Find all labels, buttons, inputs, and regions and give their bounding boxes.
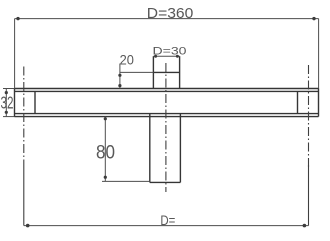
central axis centerline — [165, 63, 167, 192]
arrow dot 80 top — [104, 117, 107, 120]
flange plate bottom surface line — [15, 116, 319, 118]
flange plate top surface line — [15, 88, 319, 90]
right bolt hole centerline — [308, 65, 310, 168]
flange plate upper inner line — [15, 90, 319, 92]
dimension 32 lower extension — [3, 116, 15, 118]
boss top line — [153, 71, 179, 73]
dimension D=360 left witness — [14, 19, 16, 89]
boss right side — [179, 56, 181, 88]
arrow dot D= right — [303, 224, 307, 228]
dimension 80 bottom extension to hub — [102, 180, 150, 182]
svg-text:20: 20 — [120, 51, 134, 67]
dimension 20 extension from boss top — [120, 71, 153, 73]
arrow dot D=360 right — [312, 17, 315, 20]
dimension 32 upper extension — [3, 88, 15, 90]
svg-text:D=360: D=360 — [147, 6, 194, 22]
arrow dot D=30 left — [154, 55, 157, 58]
svg-text:80: 80 — [96, 141, 115, 163]
dimension 80 line — [104, 117, 106, 182]
right bolt-circle witness line (solid extension) — [308, 165, 310, 226]
flange plate lower inner line — [15, 113, 319, 115]
arrow dot 32 bottom — [5, 111, 8, 114]
flange left edge — [14, 89, 16, 117]
dimension 32 line — [5, 89, 7, 117]
dimension D= (bolt circle) line — [24, 225, 309, 227]
svg-text:D=: D= — [160, 212, 175, 228]
dimension D=360 right witness — [318, 19, 320, 89]
dimension D=360 line — [15, 18, 319, 20]
arrow dot D= left — [26, 224, 30, 228]
left bolt-circle witness line (solid extension) — [23, 168, 25, 226]
flange right edge — [318, 89, 320, 117]
arrow dot 20 bottom — [118, 84, 121, 87]
dimension D=30 line — [153, 55, 179, 57]
right rim step vertical — [297, 91, 299, 113]
arrow dot 80 bottom — [104, 176, 107, 179]
svg-text:32: 32 — [1, 93, 14, 113]
svg-text:D=30: D=30 — [153, 45, 187, 57]
arrow dot D=360 left — [16, 17, 19, 20]
left rim step vertical — [34, 91, 36, 113]
dimension 20 line — [119, 64, 121, 89]
arrow dot 20 top — [118, 74, 121, 77]
hub right side — [179, 114, 181, 183]
arrow dot 32 top — [5, 91, 8, 94]
hub bottom line — [150, 181, 181, 183]
arrow dot D=30 right — [176, 55, 179, 58]
hub left side — [149, 114, 151, 183]
boss left side — [152, 56, 154, 88]
left bolt hole centerline — [23, 67, 25, 169]
